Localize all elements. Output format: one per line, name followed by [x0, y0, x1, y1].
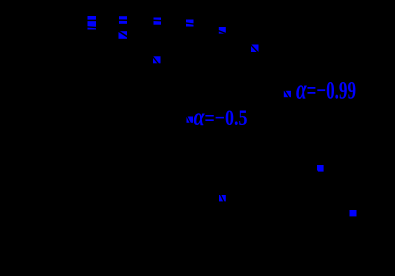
curve 1 wire segment notch at M11 lower-left corner: [316, 170, 319, 174]
marker M7 (curve 1, point 5): [219, 27, 226, 34]
curve 1 wire segment crossing M6: [185, 23, 196, 25]
curve 1 wire segment crossing M9: [284, 89, 290, 99]
label "alpha = -0.99" for curve 1: [296, 75, 356, 106]
curve 1 wire segment crossing M2: [118, 19, 129, 21]
curve 1 wire segment crossing M8: [250, 44, 260, 54]
curve 2 wire segment crossing M5: [152, 55, 160, 65]
marker M5 (curve 2, point 3): [153, 56, 161, 63]
marker M13 (curve 1, point 9): [350, 210, 357, 216]
marker M2 (curve 1, point 2): [119, 16, 127, 24]
curve 2 wire segment crossing M12: [220, 194, 225, 204]
marker M12 (curve 2, point 5): [219, 195, 226, 201]
curve 2 wire segment crossing M1b: [86, 26, 97, 29]
marker M1a (curve 1, point 1): [88, 16, 97, 24]
curve 1 wire segment crossing M4: [152, 19, 163, 22]
marker M6 (curve 1, point 4): [186, 20, 194, 27]
curve 1 wire segment crossing M1a: [86, 19, 97, 21]
marker M10 (curve 2, point 4, beside label): [187, 117, 194, 123]
marker M9 (curve 1, point 7, beside label): [284, 91, 291, 97]
curve 2 wire segment crossing M10: [186, 115, 191, 125]
svg-text:α=−0.99: α=−0.99: [296, 75, 356, 106]
marker M1b (curve 2, point 1, overlapping below M1a): [88, 22, 97, 30]
marker M3 (curve 2, point 2): [119, 31, 128, 39]
curve 2 wire segment crossing M3: [118, 31, 129, 38]
label "alpha = -0.5" for curve 2: [194, 104, 248, 131]
marker M11 (curve 1, point 8): [317, 165, 324, 172]
marker M4 (curve 1, point 3): [154, 18, 162, 25]
svg-text:α=−0.5: α=−0.5: [194, 104, 248, 131]
curve 1 wire segment crossing M7: [217, 30, 228, 34]
marker M8 (curve 1, point 6): [251, 45, 259, 53]
